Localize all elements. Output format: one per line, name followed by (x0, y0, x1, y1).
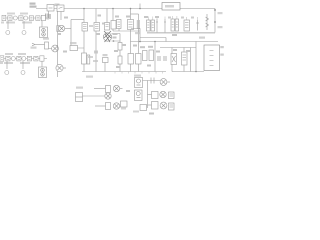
row1 stubs down (7, 21, 9, 29)
vertical links (131, 29, 166, 42)
trimmer RV1 (103, 54, 109, 72)
transistor Q11 heatsink (135, 78, 143, 88)
resistor R13 (118, 56, 122, 64)
row2 stubs down (6, 61, 8, 69)
mid right branch (148, 94, 152, 96)
transistor q8 (160, 79, 170, 86)
transistor Q1 (57, 25, 65, 31)
power box top right (162, 3, 180, 11)
resistor R21 (149, 50, 154, 61)
mid horizontal wire (131, 41, 219, 43)
center ladder vertical 4 (130, 9, 132, 72)
output zobel caps (171, 48, 191, 72)
junction dots (214, 9, 216, 11)
capacitor C14 (128, 20, 134, 30)
center branch with transistor (106, 9, 108, 31)
driver q7 (106, 103, 123, 110)
driver q6 (105, 93, 111, 99)
bus stubs (115, 72, 163, 74)
center ladder vertical 2 (95, 9, 97, 72)
label box (121, 101, 128, 110)
chain row2 components (0, 53, 44, 64)
wire top row (94, 88, 106, 90)
input chain row 1 wire (2, 17, 47, 19)
glyph row2 ground symbols (5, 67, 47, 78)
vertical x196 (195, 42, 197, 48)
net label text on rail (55, 4, 60, 7)
text marks (157, 56, 161, 61)
switch S1 (57, 5, 64, 12)
long vertical net wire (57, 11, 59, 77)
wire from F1 down (48, 11, 50, 18)
transistor Q4 darlington blob (103, 31, 120, 42)
upper feedback wire (140, 37, 166, 39)
capacitor C10 (82, 23, 88, 32)
capacitor C11 (94, 23, 100, 32)
resistor R15 (136, 54, 142, 65)
top right branch (143, 80, 161, 82)
wire mid row (83, 95, 106, 97)
wire Q1 collector (65, 28, 71, 30)
capacitor C15 (137, 20, 139, 29)
wire feedback corner (71, 20, 84, 49)
text below bus (86, 76, 93, 78)
resistor R14 (128, 54, 134, 65)
output bottom wire (172, 71, 204, 73)
bottom right branch (148, 104, 152, 106)
net text right edge (218, 12, 223, 14)
arrow element row (net label) (31, 38, 50, 50)
first cap bank bottom bus (113, 30, 140, 32)
capacitor C1 (46, 14, 50, 20)
wire bottom row (95, 105, 106, 107)
fuse F1 (47, 5, 54, 12)
resistor R31 (152, 102, 159, 110)
cap bank C30..C35 (147, 17, 200, 33)
capacitor C13 (111, 21, 116, 30)
bottom cluster: led row texts (76, 87, 83, 89)
assorted value labels (57, 15, 190, 115)
node label text top-left (30, 3, 36, 5)
glyph row1 ground symbols (6, 27, 48, 38)
input chain row 2 wire (0, 58, 47, 60)
diode string (206, 14, 209, 30)
chain row1 components (1, 13, 46, 24)
resistor R11 (82, 53, 87, 64)
wire to ladder top (71, 19, 84, 21)
resistor R20 (143, 51, 148, 61)
center ladder vertical 3 (112, 9, 114, 32)
transistor q10 (160, 102, 167, 109)
lower right wire (160, 47, 196, 49)
transistor Q12 heatsink (135, 90, 143, 101)
driver q5 (106, 85, 123, 92)
fuse holder block (76, 93, 83, 102)
cap leads to rail (148, 16, 197, 20)
transistor Q3 (56, 64, 66, 71)
capacitor C12 (102, 23, 110, 31)
wire from S1 down (60, 12, 62, 21)
vertical x155 (154, 42, 156, 72)
resistor R10 (70, 42, 78, 51)
net stub above rail at x140 (139, 4, 141, 9)
short stub rail to vertical 5 (131, 13, 139, 15)
small box below (133, 105, 147, 113)
vertical from Q4 down (119, 34, 121, 72)
ladder bottom bus (82, 71, 166, 73)
resistor block right1 (169, 92, 175, 99)
net label text mid right (199, 37, 205, 39)
speaker connector J2 (204, 45, 220, 71)
right rail terminator (214, 9, 216, 33)
right cap bank bottom bus (147, 32, 215, 34)
vertical bus bottom right (147, 81, 149, 109)
transistor q9 (160, 91, 166, 97)
center ladder vertical 1 (83, 9, 85, 72)
transistor Q2 (49, 45, 59, 52)
cap C20 (117, 20, 122, 32)
resistor block right2 (169, 103, 175, 110)
resistor R12 (118, 43, 122, 51)
label text (89, 25, 93, 27)
center ladder vertical 5 (138, 14, 140, 72)
top rail wire (36, 8, 215, 10)
resistor R30 (152, 92, 159, 99)
